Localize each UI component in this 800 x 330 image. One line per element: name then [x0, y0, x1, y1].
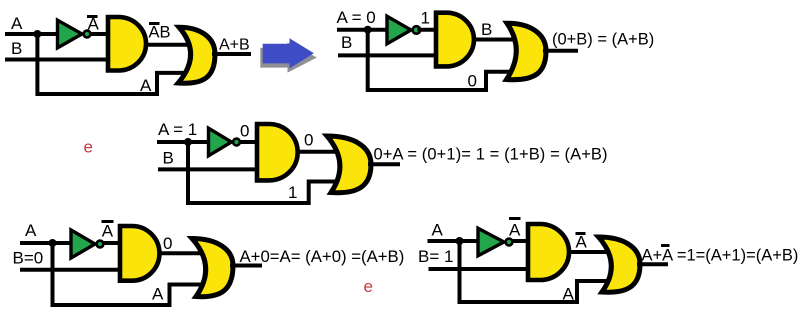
wire B input (circuit 3): [158, 167, 259, 171]
wire AND output to OR (circuit 4): [158, 251, 208, 255]
junction on A (circuit 4): [49, 239, 57, 247]
svg-text:1: 1: [421, 9, 430, 28]
svg-text:(0+B) = (A+B): (0+B) = (A+B): [552, 31, 654, 49]
wire 0 feedback to OR lower input (circuit 2): [368, 30, 520, 90]
svg-text:A: A: [102, 221, 114, 240]
svg-text:0+A = (0+1)= 1 = (1+B) = (A+B): 0+A = (0+1)= 1 = (1+B) = (A+B): [374, 146, 608, 164]
svg-text:B: B: [341, 33, 352, 52]
svg-text:A: A: [563, 285, 575, 304]
wire NOT output to AND (circuit 5): [511, 239, 530, 243]
svg-text:B: B: [481, 20, 492, 39]
overbar of NOT output label (circuit 5): [509, 217, 521, 220]
overbar of NOT output label (circuit 1): [87, 15, 98, 18]
OR gate (circuit 5): [599, 237, 641, 292]
svg-text:A: A: [432, 221, 444, 240]
svg-text:A = 1: A = 1: [158, 120, 197, 139]
wire B input (circuit 1): [5, 58, 110, 62]
OR gate (circuit 2): [507, 23, 547, 79]
svg-text:A: A: [509, 221, 521, 240]
overbar in equation A-bar (circuit 5): [661, 244, 670, 247]
wire A feedback to OR lower input (circuit 4): [53, 243, 209, 305]
NOT gate (circuit 2): [387, 16, 420, 44]
svg-text:A+B: A+B: [219, 37, 250, 54]
wire A input (circuit 1): [5, 32, 60, 36]
NOT gate (circuit 1): [58, 20, 91, 48]
svg-text:A+A =1=(A+1)=(A+B): A+A =1=(A+1)=(A+B): [642, 247, 799, 265]
svg-text:B=0: B=0: [13, 249, 44, 268]
svg-text:A: A: [140, 76, 152, 95]
svg-text:AB: AB: [149, 24, 171, 42]
overbar of NOT output label (circuit 4): [102, 220, 114, 223]
arrow (implication, blue): [263, 38, 314, 68]
NOT gate (circuit 4): [71, 230, 103, 258]
OR gate (circuit 1): [178, 27, 215, 83]
svg-text:A: A: [25, 221, 37, 240]
wire OR output (circuit 4): [230, 264, 262, 268]
junction on A (circuit 3): [184, 138, 192, 146]
junction on A (circuit 1): [33, 30, 41, 38]
wire A feedback to OR lower input (circuit 1): [37, 34, 194, 94]
wire OR output (circuit 1): [212, 52, 251, 56]
svg-text:e: e: [84, 138, 93, 157]
svg-text:0: 0: [240, 122, 249, 141]
svg-text:0: 0: [468, 72, 477, 91]
overbar of AND output label (circuit 5): [576, 232, 586, 235]
NOT gate (circuit 5): [478, 228, 512, 256]
AND gate (circuit 2): [436, 13, 474, 67]
wire AND output to OR (circuit 5): [567, 250, 614, 254]
svg-text:B: B: [163, 149, 174, 168]
wire NOT output to AND (circuit 1): [91, 32, 111, 36]
wire OR output (circuit 3): [368, 162, 400, 166]
OR gate (circuit 3): [327, 136, 371, 193]
wire A input (circuit 2): [337, 28, 387, 32]
wire NOT output to AND (circuit 3): [240, 140, 259, 144]
svg-text:0: 0: [163, 234, 172, 253]
wire OR output (circuit 5): [637, 262, 668, 266]
svg-text:A: A: [11, 14, 23, 33]
wire 1 feedback to OR lower input (circuit 3): [188, 142, 342, 203]
svg-text:0: 0: [304, 131, 313, 150]
svg-text:e: e: [364, 277, 373, 296]
svg-text:A+0=A= (A+0) =(A+B): A+0=A= (A+0) =(A+B): [240, 247, 405, 266]
svg-text:A = 0: A = 0: [337, 8, 376, 27]
wire AND output to OR (circuit 2): [474, 38, 520, 42]
junction on A (circuit 5): [456, 237, 464, 245]
wire NOT output to AND (circuit 4): [104, 241, 123, 245]
svg-text:A: A: [152, 285, 164, 304]
wire AND output to OR (circuit 1): [146, 43, 194, 47]
AND gate (circuit 3): [257, 124, 298, 180]
wire B input (circuit 4): [20, 268, 122, 272]
wire A feedback to OR lower input (circuit 5): [460, 241, 615, 302]
AND gate (circuit 5): [528, 224, 569, 280]
wire A input (circuit 5): [428, 239, 480, 243]
svg-text:1: 1: [288, 183, 297, 202]
svg-text:B= 1: B= 1: [418, 247, 453, 266]
AND gate (circuit 4): [120, 226, 159, 281]
wire A input (circuit 4): [20, 241, 71, 245]
wire B input (circuit 5): [429, 267, 531, 271]
overbar of AB label (circuit 1): [149, 22, 160, 25]
NOT gate (circuit 3): [209, 128, 240, 156]
svg-text:A: A: [576, 233, 588, 252]
OR gate (circuit 4): [192, 239, 233, 297]
wire B input (circuit 2): [338, 53, 438, 57]
wire OR output (circuit 2): [543, 49, 578, 53]
wire A input (circuit 3): [157, 140, 209, 144]
wire AND output to OR (circuit 3): [296, 150, 342, 154]
arrow shadow: [260, 42, 317, 72]
svg-text:B: B: [11, 39, 22, 58]
svg-text:A: A: [88, 15, 100, 34]
wire NOT output to AND (circuit 2): [418, 28, 439, 32]
AND gate (circuit 1): [108, 17, 146, 71]
junction on A (circuit 2): [364, 26, 372, 34]
